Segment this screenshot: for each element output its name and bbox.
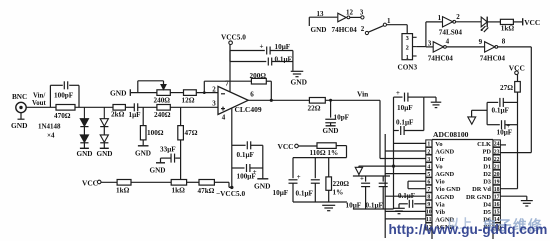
svg-text:×4: ×4 <box>47 132 55 140</box>
svg-text:220Ω: 220Ω <box>333 180 350 188</box>
svg-text:Via: Via <box>435 201 445 208</box>
svg-text:74HC04: 74HC04 <box>332 26 358 34</box>
svg-text:0.1μF: 0.1μF <box>396 118 414 126</box>
svg-text:CLC409: CLC409 <box>235 105 262 114</box>
svg-text:http://www.gu-gddq.com: http://www.gu-gddq.com <box>389 222 548 237</box>
svg-text:GND: GND <box>150 167 166 175</box>
svg-text:Vo: Vo <box>435 141 442 148</box>
svg-text:1μF: 1μF <box>129 111 142 119</box>
svg-text:27Ω: 27Ω <box>500 84 513 92</box>
svg-text:4: 4 <box>427 164 430 170</box>
svg-text:3: 3 <box>428 39 432 47</box>
svg-text:VCC: VCC <box>82 178 98 187</box>
svg-text:0.1μF: 0.1μF <box>366 201 384 209</box>
svg-text:10: 10 <box>426 210 432 216</box>
svg-text:3: 3 <box>212 99 216 107</box>
svg-text:Vin: Vin <box>357 90 368 99</box>
svg-text:Vo: Vo <box>435 164 442 171</box>
svg-text:CON3: CON3 <box>398 64 418 72</box>
svg-text:ADC08100: ADC08100 <box>433 130 469 139</box>
svg-text:Vir: Vir <box>435 156 444 163</box>
svg-text:47Ω: 47Ω <box>185 129 198 137</box>
svg-text:12Ω: 12Ω <box>182 97 195 105</box>
svg-text:3: 3 <box>360 9 364 17</box>
svg-text:470Ω: 470Ω <box>54 112 71 120</box>
svg-text:240Ω: 240Ω <box>154 97 171 105</box>
svg-text:21: 21 <box>494 164 500 170</box>
svg-text:12: 12 <box>346 9 354 17</box>
svg-text:2: 2 <box>456 13 460 21</box>
svg-text:GND: GND <box>254 182 270 191</box>
svg-text:GND: GND <box>323 127 339 135</box>
svg-text:200Ω: 200Ω <box>250 72 267 80</box>
svg-text:2: 2 <box>427 149 430 155</box>
svg-text:D0: D0 <box>483 156 491 163</box>
svg-text:GND: GND <box>291 78 307 87</box>
svg-text:19: 19 <box>494 179 500 185</box>
svg-text:10μF: 10μF <box>497 128 513 136</box>
svg-text:Vio GND: Vio GND <box>435 186 461 193</box>
svg-text:D2: D2 <box>483 171 491 178</box>
svg-text:0.1μF: 0.1μF <box>296 190 314 198</box>
svg-text:22: 22 <box>494 157 500 163</box>
svg-text:10μF: 10μF <box>397 104 413 112</box>
svg-text:GND: GND <box>135 150 151 158</box>
svg-text:AGND: AGND <box>435 171 454 178</box>
svg-text:VCC5.0: VCC5.0 <box>221 33 246 42</box>
svg-text:GND: GND <box>311 26 327 34</box>
svg-text:4: 4 <box>446 38 450 46</box>
svg-text:0.1μF: 0.1μF <box>275 55 293 63</box>
svg-text:3: 3 <box>427 157 430 163</box>
svg-text:22Ω: 22Ω <box>308 104 321 112</box>
svg-text:74HC04: 74HC04 <box>428 54 454 62</box>
svg-text:1: 1 <box>387 17 391 25</box>
svg-text:24: 24 <box>494 142 500 148</box>
svg-text:3: 3 <box>406 35 409 42</box>
svg-text:PD: PD <box>482 148 491 155</box>
svg-text:Vib: Vib <box>435 209 445 216</box>
svg-text:100μF: 100μF <box>237 172 257 180</box>
svg-text:GND: GND <box>110 88 126 97</box>
svg-text:8: 8 <box>502 38 506 46</box>
svg-text:47kΩ: 47kΩ <box>198 187 215 195</box>
svg-text:AGND: AGND <box>435 194 454 201</box>
svg-text:2: 2 <box>406 45 409 52</box>
svg-text:17: 17 <box>494 195 500 201</box>
svg-text:1kΩ: 1kΩ <box>116 187 130 195</box>
svg-text:BNC: BNC <box>12 93 27 101</box>
svg-text:16: 16 <box>494 202 500 208</box>
svg-text:4: 4 <box>222 114 226 122</box>
svg-text:0.1μF: 0.1μF <box>237 151 255 159</box>
svg-text:9: 9 <box>427 202 430 208</box>
svg-text:110Ω 1%: 110Ω 1% <box>310 149 339 157</box>
svg-text:1: 1 <box>427 142 430 148</box>
svg-text:9: 9 <box>479 38 483 46</box>
svg-text:2: 2 <box>212 86 216 94</box>
svg-text:1: 1 <box>406 54 409 61</box>
svg-text:6: 6 <box>427 179 430 185</box>
svg-text:1: 1 <box>438 14 442 22</box>
svg-text:D4: D4 <box>483 201 492 208</box>
svg-text:20: 20 <box>494 172 500 178</box>
svg-text:1N4148: 1N4148 <box>38 123 61 131</box>
svg-text:15: 15 <box>494 210 500 216</box>
svg-text:D1: D1 <box>483 164 491 171</box>
svg-text:10pF: 10pF <box>334 113 350 121</box>
svg-text:33μF: 33μF <box>160 146 176 154</box>
svg-text:10μF: 10μF <box>273 189 289 197</box>
svg-text:100pF: 100pF <box>54 92 74 100</box>
svg-text:Vout: Vout <box>32 100 46 107</box>
svg-text:8: 8 <box>427 195 430 201</box>
svg-text:0.1μF: 0.1μF <box>492 106 510 114</box>
svg-text:100Ω: 100Ω <box>147 129 164 137</box>
svg-text:GND: GND <box>77 150 93 158</box>
svg-text:240Ω: 240Ω <box>154 111 171 119</box>
svg-text:74LS04: 74LS04 <box>439 29 463 37</box>
svg-text:D5: D5 <box>483 209 491 216</box>
svg-text:1%: 1% <box>333 189 344 197</box>
svg-text:VCC: VCC <box>524 18 540 27</box>
svg-text:1kΩ: 1kΩ <box>172 187 186 195</box>
svg-text:GND: GND <box>11 121 27 130</box>
svg-text:VCC: VCC <box>278 142 294 151</box>
svg-text:0.1μF: 0.1μF <box>398 192 415 200</box>
svg-text:6: 6 <box>250 91 254 99</box>
svg-text:+: + <box>260 43 264 51</box>
svg-text:Vio: Vio <box>435 179 444 186</box>
svg-text:CLK: CLK <box>477 141 491 148</box>
svg-text:18: 18 <box>494 187 500 193</box>
svg-text:2kΩ: 2kΩ <box>111 111 125 119</box>
svg-text:+: + <box>297 174 301 181</box>
svg-text:Vin/: Vin/ <box>33 93 45 100</box>
svg-text:+: + <box>396 90 400 97</box>
svg-text:10μF: 10μF <box>275 43 291 51</box>
svg-text:DR GND: DR GND <box>466 194 491 201</box>
svg-text:10μF: 10μF <box>346 201 362 209</box>
svg-text:7: 7 <box>427 187 430 193</box>
svg-text:−VCC5.0: −VCC5.0 <box>216 189 245 198</box>
svg-text:D3: D3 <box>483 179 491 186</box>
svg-text:GND: GND <box>97 150 113 158</box>
svg-text:DR Vd: DR Vd <box>472 186 491 193</box>
svg-text:+: + <box>360 175 364 182</box>
svg-text:23: 23 <box>494 149 500 155</box>
svg-text:AGND: AGND <box>435 148 454 155</box>
svg-text:74HC04: 74HC04 <box>480 54 506 62</box>
svg-text:5: 5 <box>427 172 430 178</box>
svg-text:2: 2 <box>361 25 365 33</box>
svg-text:1kΩ: 1kΩ <box>501 25 515 33</box>
